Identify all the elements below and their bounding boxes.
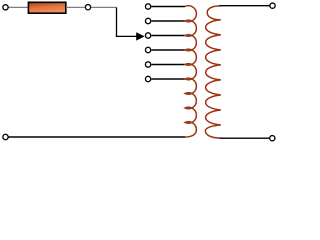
wire W2 (resistor to terminal T2) (66, 6, 85, 8)
tap terminal P6 (145, 76, 150, 81)
secondary winding L2 (7 loops) (205, 6, 220, 138)
terminal T3 (bottom-left) (3, 134, 8, 139)
tap terminal P4 (145, 47, 150, 52)
terminal T5 (bottom-right) (270, 136, 275, 141)
tap terminal P3 (selected) (145, 33, 150, 38)
wire tap4 (152, 49, 186, 51)
arrowhead (tap selector pointing to tap 3) (136, 32, 144, 40)
wire W5 (bottom rail, left) (9, 136, 186, 138)
tap terminal P2 (145, 18, 150, 23)
wire W3 (terminal T2 to selector elbow) (92, 6, 117, 8)
wire tap5 (152, 64, 186, 66)
terminal T4 (top-right) (270, 3, 275, 8)
wire W6 (secondary top to terminal T4) (220, 5, 270, 7)
wire W7 (secondary bottom to terminal T5) (220, 137, 269, 139)
terminal T1 (top-left input) (3, 5, 8, 10)
wire W4 (selector arm, vertical + horizontal) (117, 7, 139, 36)
tap terminal P1 (145, 4, 150, 9)
primary winding L1 (tapped, 9 loops) (185, 6, 196, 137)
resistor R1 (28, 2, 65, 13)
wire tap6 (152, 78, 186, 80)
wire tap1 (152, 6, 186, 8)
tap terminal P5 (145, 62, 150, 67)
wire tap3 (152, 35, 186, 37)
terminal T2 (after resistor) (85, 5, 90, 10)
wire tap2 (152, 20, 186, 22)
wire W1 (input top-left to resistor) (9, 6, 30, 8)
